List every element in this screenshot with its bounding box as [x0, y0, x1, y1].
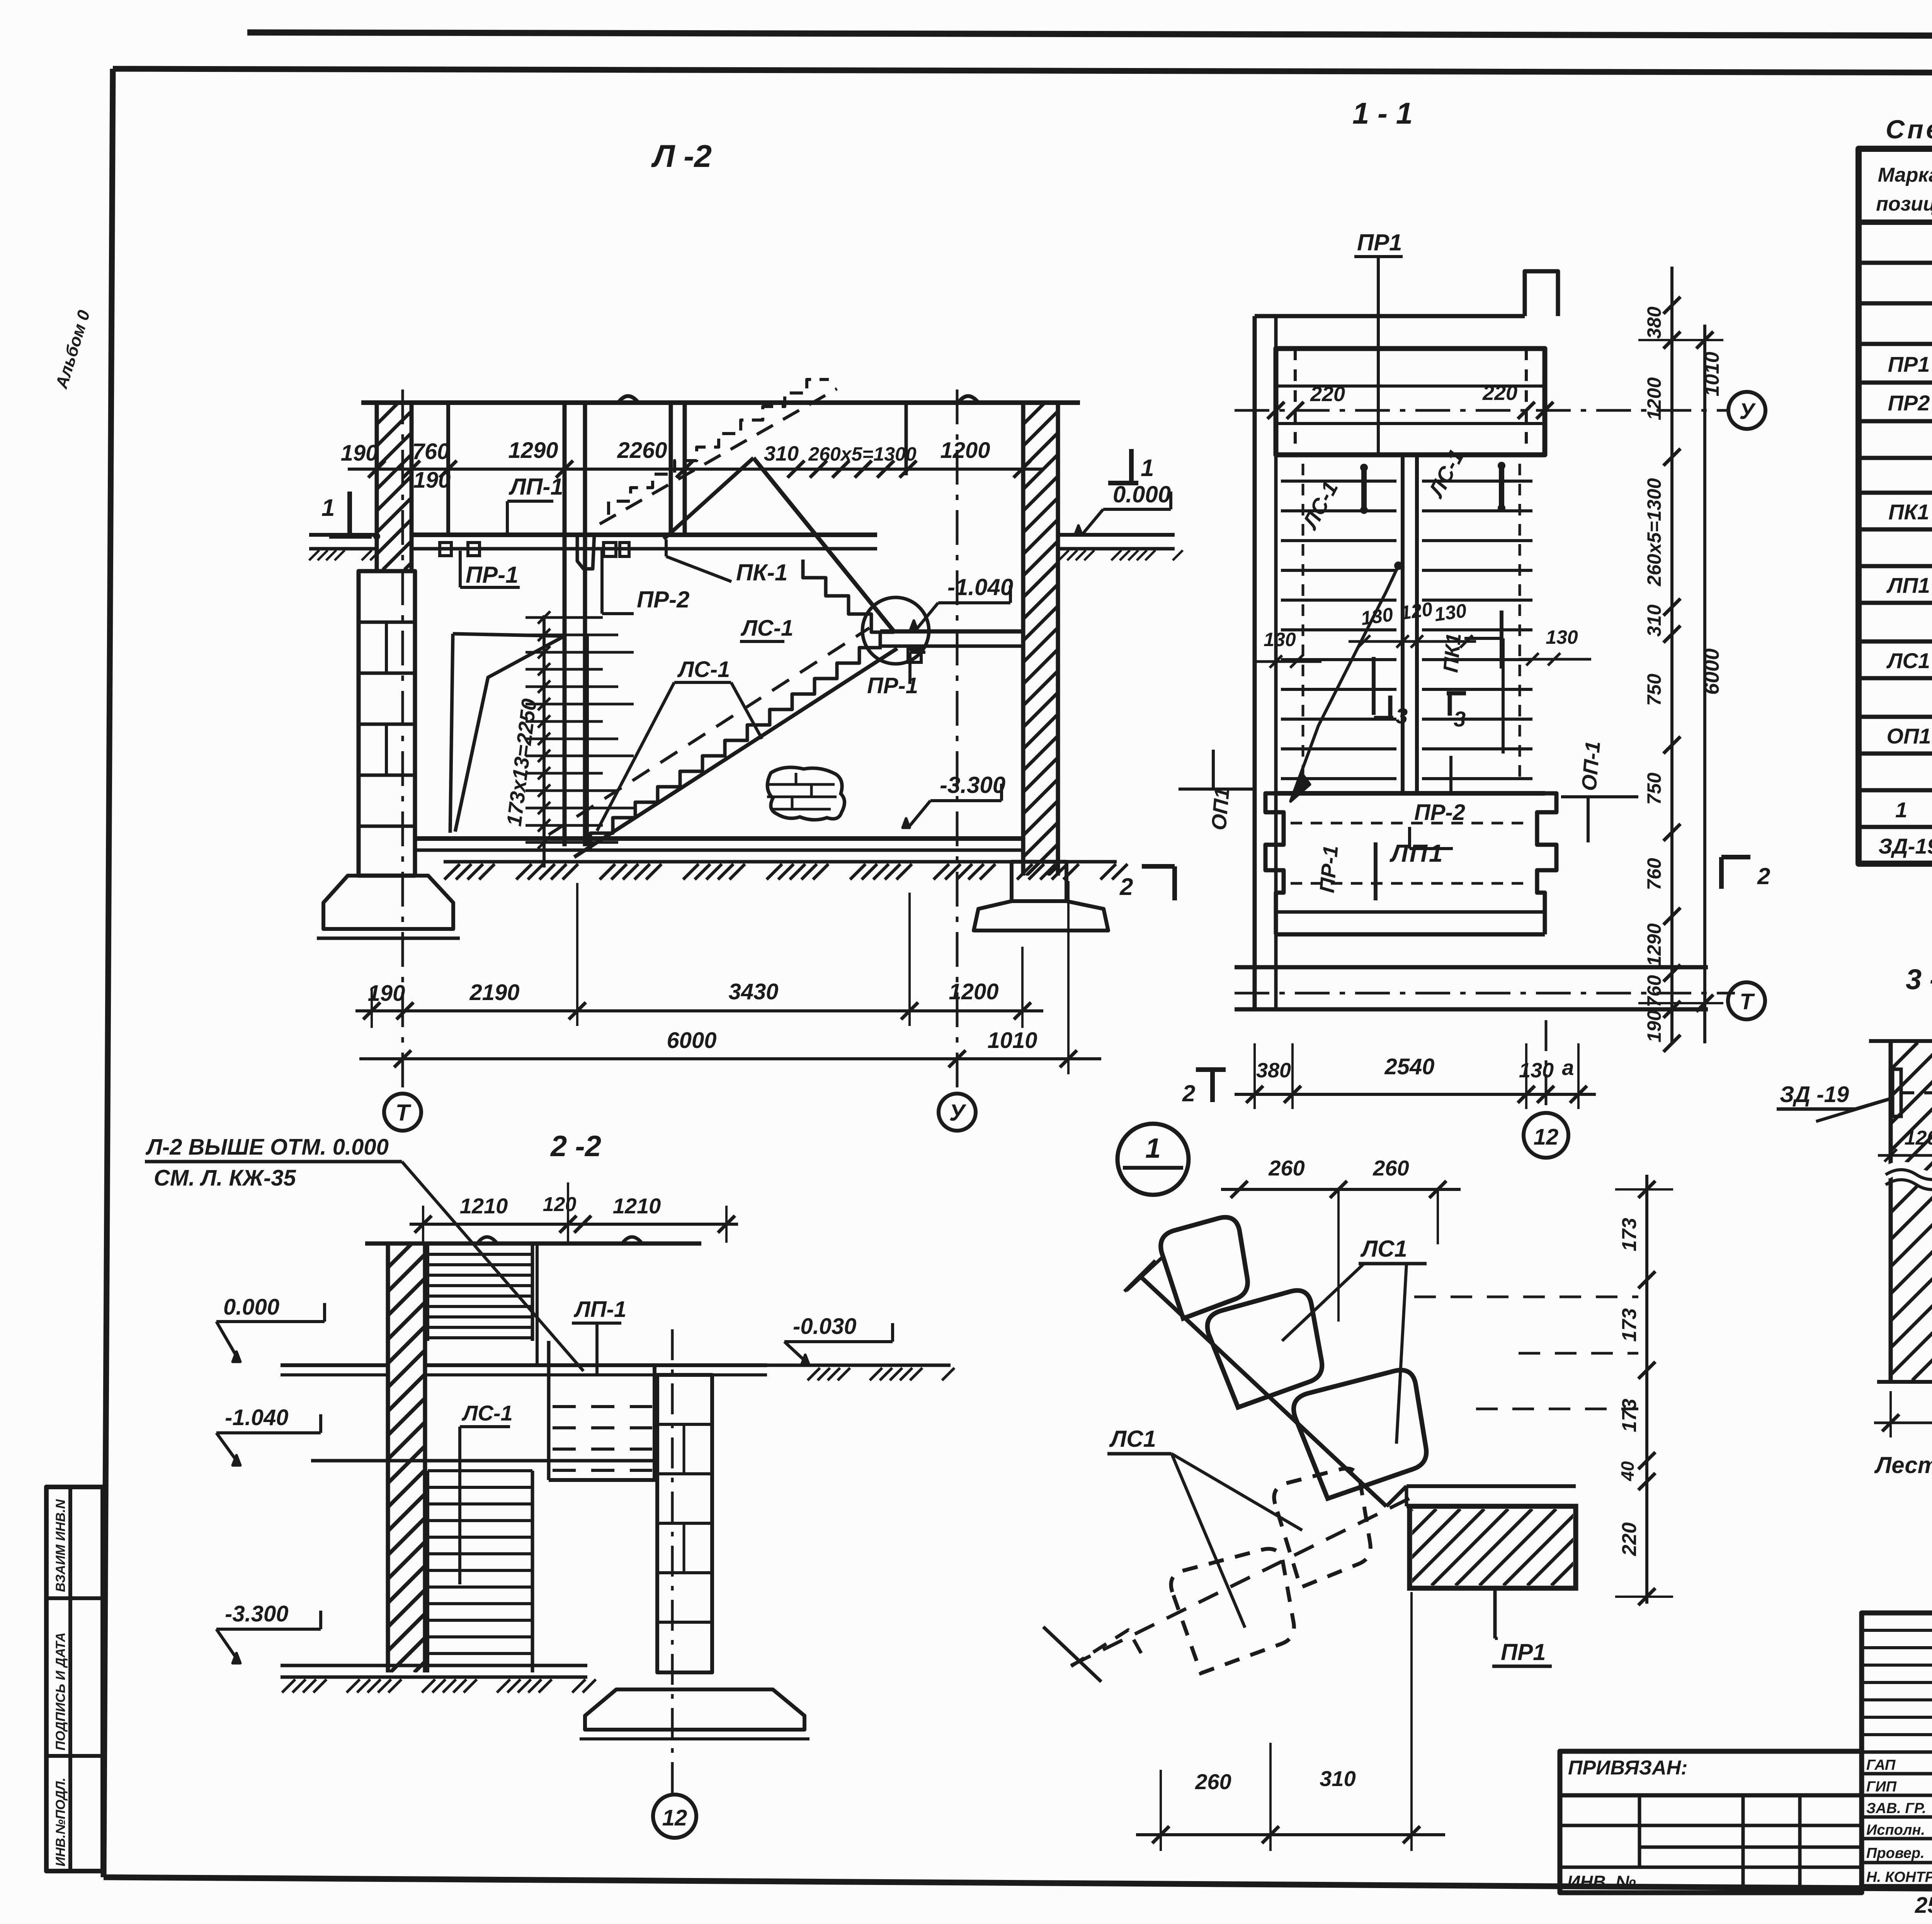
- right footing pier: [1012, 862, 1066, 901]
- svg-text:ПК-1: ПК-1: [736, 560, 787, 585]
- svg-text:ГАП: ГАП: [1866, 1757, 1896, 1773]
- spec table header bottom: [1859, 219, 1932, 225]
- lower landing dashed lines: [1291, 822, 1530, 825]
- PR1 leader vertical: [1377, 257, 1380, 455]
- ceiling break hump: [618, 396, 638, 403]
- svg-text:2190: 2190: [469, 980, 519, 1005]
- svg-text:1: 1: [321, 495, 335, 521]
- inventory strip cell line 2: [46, 1754, 103, 1758]
- svg-text:173: 173: [1618, 1399, 1641, 1432]
- svg-text:ЛС-1: ЛС-1: [740, 616, 793, 641]
- sheet frame top: [113, 69, 1932, 74]
- svg-text:Провер.: Провер.: [1866, 1845, 1925, 1861]
- svg-text:1210: 1210: [613, 1194, 661, 1218]
- 2-2 right pier: [657, 1375, 712, 1672]
- wall line 760 edge: [446, 403, 450, 535]
- axis circle T plan: [1728, 982, 1765, 1019]
- landing -1.040 slab: [880, 629, 1023, 634]
- svg-text:40: 40: [1617, 1461, 1638, 1482]
- svg-text:1: 1: [1145, 1133, 1161, 1164]
- svg-text:1290: 1290: [1643, 923, 1665, 966]
- detail step 3: [1294, 1370, 1426, 1499]
- detail step 1: [1161, 1217, 1248, 1318]
- sheet frame left: [104, 69, 113, 1877]
- svg-text:ПК1: ПК1: [1888, 500, 1929, 524]
- slab 0.000 left outside: [309, 533, 377, 537]
- svg-text:760: 760: [1643, 858, 1665, 890]
- plan left wall doubles: [1253, 316, 1257, 1009]
- detail top dims: [1221, 1188, 1461, 1191]
- right footing: [974, 901, 1108, 931]
- 3-3 top cap line: [1869, 1039, 1932, 1043]
- stairwell wall line B: [583, 403, 587, 846]
- svg-text:750: 750: [1643, 674, 1665, 706]
- svg-text:1290: 1290: [508, 438, 558, 463]
- slab 0.000 main: [412, 532, 877, 537]
- svg-text:2260: 2260: [617, 438, 667, 463]
- 2-2 top line: [365, 1242, 701, 1246]
- inventory strip cell line 1: [46, 1596, 103, 1600]
- svg-text:ЗД-19: ЗД-19: [1878, 834, 1932, 858]
- svg-text:1200: 1200: [1643, 377, 1665, 420]
- stairwell wall line A: [563, 403, 567, 846]
- detail bottom dim extensions: [1160, 1770, 1162, 1851]
- ground line: [444, 860, 1117, 864]
- svg-text:ГИП: ГИП: [1866, 1779, 1897, 1795]
- 2-2 floor slab: [281, 1363, 388, 1367]
- detail level dashed lines: [1414, 1296, 1638, 1298]
- LP-1 bracket: [506, 501, 509, 536]
- svg-text:1010: 1010: [987, 1028, 1037, 1053]
- svg-text:750: 750: [1643, 772, 1665, 805]
- svg-text:Н. КОНТР: Н. КОНТР: [1866, 1869, 1932, 1885]
- left brick pier courses: [359, 621, 415, 624]
- note leader: [402, 1162, 583, 1371]
- svg-text:1010: 1010: [1701, 352, 1723, 396]
- svg-text:760: 760: [412, 439, 450, 464]
- upper flight dashed zigzag: [609, 379, 829, 515]
- plan bottom wall: [1235, 965, 1708, 970]
- 3-3 wall break marks: [1886, 1168, 1932, 1178]
- 2-2 lower flight stack: [428, 1469, 532, 1472]
- svg-text:3 - 3: 3 - 3: [1906, 963, 1932, 995]
- svg-text:-1.040: -1.040: [225, 1405, 288, 1430]
- signature table name rows: [1862, 1750, 1932, 1754]
- svg-text:260: 260: [1268, 1156, 1304, 1180]
- detail bottom partial step: [1071, 1630, 1144, 1666]
- svg-text:ЛС1: ЛС1: [1360, 1236, 1407, 1262]
- svg-text:ОП1: ОП1: [1207, 786, 1234, 831]
- bottom slab -3.300: [415, 836, 1023, 841]
- flight solid stringer upper: [753, 458, 893, 631]
- svg-text:ПОДПИСЬ И ДАТА: ПОДПИСЬ И ДАТА: [53, 1632, 68, 1750]
- PR-2 lintel squares: [604, 543, 616, 556]
- plan bottom dim line: [1235, 1093, 1596, 1096]
- lower flight stringer: [574, 648, 897, 857]
- svg-text:ПР-1: ПР-1: [466, 562, 519, 588]
- svg-text:Исполн.: Исполн.: [1866, 1822, 1925, 1838]
- plan right flight treads: [1422, 480, 1532, 483]
- svg-text:130: 130: [1433, 600, 1468, 626]
- section mark 2 plan right: [1719, 857, 1724, 889]
- svg-text:190: 190: [1643, 1010, 1665, 1043]
- svg-text:-3.300: -3.300: [225, 1601, 288, 1626]
- svg-text:ЛС-1: ЛС-1: [677, 657, 730, 682]
- inventory strip box: [46, 1487, 103, 1871]
- svg-text:260: 260: [1372, 1156, 1409, 1180]
- section mark 2 plan left: [1196, 1067, 1226, 1072]
- svg-text:0.000: 0.000: [1113, 481, 1171, 507]
- detail hidden stringer dashed: [1071, 1497, 1412, 1665]
- grid line right: [905, 403, 908, 475]
- svg-text:1 - 1: 1 - 1: [1352, 96, 1413, 130]
- svg-text:130: 130: [1546, 626, 1578, 648]
- svg-text:260: 260: [1195, 1769, 1231, 1794]
- wall line C pair: [669, 403, 673, 535]
- svg-text:Марка: Марка: [1878, 164, 1932, 186]
- svg-text:190: 190: [413, 468, 451, 493]
- svg-text:Лестница Л-2 выше отм. 0.00: Лестница Л-2 выше отм. 0.000 дана на лис…: [1874, 1452, 1932, 1478]
- svg-text:ПР-2: ПР-2: [1414, 800, 1465, 825]
- left footing: [323, 876, 453, 929]
- svg-text:позиц.: позиц.: [1876, 193, 1932, 215]
- 3-3 label ZD-19 leader: [1816, 1098, 1893, 1121]
- svg-text:190: 190: [368, 981, 405, 1006]
- upper dim line: [348, 468, 1043, 471]
- svg-text:Спецификация элементов ле: Спецификация элементов лестницы Л-2: [1886, 115, 1932, 144]
- svg-text:260х5=1300: 260х5=1300: [808, 443, 917, 465]
- svg-text:260х5=1300: 260х5=1300: [1643, 478, 1665, 587]
- axis T horizontal plan: [1235, 992, 1735, 995]
- mid flight zigzag: [803, 560, 894, 632]
- svg-text:ПР2: ПР2: [1888, 391, 1930, 415]
- 2-2 upper flight stack: [428, 1253, 532, 1256]
- svg-text:ПК1: ПК1: [1439, 632, 1466, 674]
- -1.040 landing line: [311, 1459, 655, 1463]
- svg-text:3: 3: [1454, 707, 1466, 731]
- svg-text:1200: 1200: [940, 438, 990, 463]
- axis circle U plan: [1728, 392, 1765, 429]
- plan left flight treads: [1281, 480, 1396, 483]
- svg-text:130: 130: [1264, 629, 1296, 650]
- detail flight stringer: [1140, 1276, 1386, 1506]
- svg-text:130: 130: [1359, 604, 1395, 629]
- plan flight dashed edge left: [1302, 464, 1304, 784]
- bent bar outline: [453, 634, 563, 636]
- stair direction arrow: [1291, 566, 1398, 801]
- svg-text:-0.030: -0.030: [793, 1314, 856, 1339]
- slab 0.000 outside right wall: [1058, 533, 1175, 537]
- right wall edges: [1021, 403, 1026, 876]
- privyazan grid cols: [1638, 1795, 1641, 1867]
- 2-2 pier inner vertical: [683, 1424, 685, 1474]
- svg-text:2540: 2540: [1384, 1054, 1434, 1079]
- lower landing LP1 outline: [1276, 791, 1545, 796]
- axis circle T: [384, 1094, 421, 1131]
- dim extension lines: [576, 883, 578, 1026]
- 2-2 wall edges: [386, 1244, 390, 1672]
- svg-text:1200: 1200: [949, 979, 998, 1004]
- svg-text:ЗД -19: ЗД -19: [1780, 1082, 1849, 1107]
- 2-2 landing dashed: [553, 1405, 652, 1408]
- svg-text:ЗАВ. ГР.: ЗАВ. ГР.: [1866, 1800, 1926, 1817]
- PR-1 lintel squares: [440, 543, 451, 556]
- svg-text:ПР-1: ПР-1: [1315, 844, 1342, 894]
- svg-text:Т: Т: [396, 1100, 412, 1126]
- svg-text:12: 12: [662, 1805, 687, 1830]
- axis T line: [401, 390, 404, 1094]
- flight triangle left edge: [664, 458, 753, 539]
- axis circle U: [939, 1094, 976, 1131]
- svg-text:ЛС-1: ЛС-1: [461, 1401, 513, 1425]
- svg-text:ПР1: ПР1: [1501, 1639, 1546, 1665]
- lower flight zigzag: [590, 648, 882, 849]
- svg-text:ЛС1: ЛС1: [1886, 648, 1930, 673]
- sheet frame bottom: [104, 1877, 1932, 1893]
- upper flight dashed stringer: [600, 389, 837, 524]
- detail bottom dim line: [1136, 1833, 1445, 1836]
- svg-text:1: 1: [1895, 798, 1907, 822]
- detail callout circle: [862, 597, 929, 664]
- svg-text:2: 2: [1119, 874, 1133, 900]
- svg-text:У: У: [949, 1100, 967, 1126]
- plan top wall line: [1255, 314, 1525, 318]
- bottom dim line 1: [355, 1009, 1043, 1012]
- svg-text:ЛП-1: ЛП-1: [509, 474, 563, 500]
- svg-text:2: 2: [1757, 863, 1770, 889]
- spec table outer border: [1859, 149, 1932, 864]
- svg-text:ЛП1: ЛП1: [1886, 573, 1930, 597]
- section mark 2 bottom: [1142, 864, 1175, 869]
- svg-text:Л -2: Л -2: [651, 139, 712, 174]
- circle 12 plan: [1545, 1020, 1548, 1107]
- 3-3 embedded plate: [1893, 1069, 1901, 1116]
- svg-text:2 -2: 2 -2: [550, 1130, 601, 1163]
- 2-2 top dims: [410, 1223, 738, 1226]
- plan dim horizontal connectors: [1638, 339, 1723, 341]
- signature table thin rows: [1862, 1629, 1932, 1632]
- svg-text:310: 310: [764, 442, 799, 465]
- upper landing inner lines: [1276, 384, 1545, 388]
- svg-text:190: 190: [341, 441, 378, 466]
- lower landing bottom lines: [1276, 910, 1545, 914]
- svg-text:120: 120: [543, 1193, 577, 1216]
- detail callout 1: [1117, 1124, 1189, 1195]
- svg-text:173: 173: [1618, 1308, 1641, 1342]
- svg-text:380: 380: [1643, 306, 1665, 339]
- bottom dim line 2: [359, 1057, 1101, 1060]
- svg-text:173: 173: [1618, 1218, 1641, 1252]
- svg-text:310: 310: [1643, 604, 1665, 637]
- ceiling line: [361, 400, 1080, 405]
- section mark 3 left: [1374, 716, 1393, 720]
- svg-text:-3.300: -3.300: [940, 772, 1005, 798]
- svg-text:ПРИВЯЗАН:: ПРИВЯЗАН:: [1568, 1757, 1688, 1779]
- 2-2 bottom floor: [281, 1664, 587, 1667]
- 2-2 circle 12: [653, 1795, 696, 1838]
- 3-3 anchor dashed line: [1900, 1091, 1932, 1094]
- svg-text:2: 2: [1182, 1080, 1195, 1106]
- privyazan grid rows: [1560, 1793, 1862, 1798]
- plan right dim line inner: [1670, 267, 1673, 1043]
- signature table outer: [1862, 1613, 1932, 1887]
- svg-text:6000: 6000: [1700, 648, 1723, 695]
- svg-text:220: 220: [1310, 383, 1345, 406]
- slab beam drop: [577, 535, 594, 569]
- note underline: [145, 1160, 402, 1164]
- svg-text:3430: 3430: [728, 979, 778, 1004]
- 2-2 foundation: [585, 1689, 804, 1730]
- 2-2 mid verticals: [536, 1244, 539, 1364]
- left wall edges: [375, 403, 379, 571]
- brick patch: [767, 767, 844, 820]
- svg-text:ПР1: ПР1: [1888, 352, 1930, 376]
- ladder verticals: [586, 634, 589, 846]
- svg-text:ПР1: ПР1: [1357, 230, 1402, 255]
- section mark 1 right: [1129, 449, 1134, 482]
- spec table row lines: [1859, 261, 1932, 265]
- 3-3 ground line: [1877, 1380, 1932, 1384]
- plan right dim line outer: [1703, 325, 1706, 1043]
- svg-text:1210: 1210: [460, 1194, 508, 1218]
- svg-text:ПР-2: ПР-2: [637, 587, 690, 612]
- title block privyazan box: [1560, 1751, 1862, 1893]
- detail step 4 dashed: [1274, 1468, 1370, 1587]
- svg-text:ОП1: ОП1: [1887, 724, 1931, 748]
- svg-text:12: 12: [1534, 1124, 1559, 1150]
- svg-text:ОП-1: ОП-1: [1577, 740, 1605, 792]
- svg-text:а: а: [1562, 1055, 1574, 1080]
- upper landing dashed edges: [1294, 349, 1297, 455]
- upper landing slab outer: [1276, 349, 1545, 455]
- riser ladder dim line: [543, 615, 546, 868]
- svg-text:120: 120: [1399, 598, 1434, 624]
- detail right dim line: [1645, 1175, 1648, 1604]
- svg-text:130: 130: [1519, 1059, 1554, 1082]
- svg-text:Л-2 ВЫШЕ ОТМ. 0.000: Л-2 ВЫШЕ ОТМ. 0.000: [145, 1135, 389, 1160]
- detail step nose tick: [1386, 1486, 1406, 1506]
- left brick pier outline: [359, 571, 415, 876]
- svg-text:310: 310: [1320, 1766, 1355, 1791]
- 2-2 axis line: [671, 1329, 674, 1793]
- svg-text:ИНВ. №: ИНВ. №: [1567, 1872, 1636, 1892]
- lower flight dashed line: [549, 628, 869, 835]
- svg-text:220: 220: [1482, 381, 1517, 405]
- detail step 2: [1207, 1291, 1322, 1407]
- svg-text:ЛП-1: ЛП-1: [573, 1297, 626, 1322]
- 3-3 wall edges: [1889, 1041, 1893, 1380]
- scan top edge line: [247, 32, 1932, 37]
- svg-text:Т: Т: [1740, 989, 1755, 1014]
- plan dim extensions: [1253, 1043, 1256, 1109]
- plan rebar marks: [1361, 468, 1367, 510]
- svg-text:ЛП1: ЛП1: [1389, 839, 1444, 867]
- svg-text:3: 3: [1396, 704, 1408, 728]
- axis U line: [956, 390, 959, 1094]
- svg-text:СМ. Л. КЖ-35: СМ. Л. КЖ-35: [154, 1165, 296, 1191]
- svg-text:0.000: 0.000: [223, 1295, 279, 1320]
- svg-text:ВЗАИМ ИНВ.N: ВЗАИМ ИНВ.N: [53, 1499, 68, 1592]
- svg-text:У: У: [1739, 399, 1756, 424]
- svg-text:ЛС1: ЛС1: [1109, 1426, 1156, 1452]
- svg-text:ИНВ.№ПОДЛ.: ИНВ.№ПОДЛ.: [53, 1778, 68, 1866]
- detail step 5 dashed: [1171, 1549, 1294, 1673]
- svg-text:380: 380: [1256, 1059, 1291, 1082]
- plan flight dashed edge right: [1519, 464, 1521, 784]
- detail PR1 block: [1410, 1506, 1576, 1588]
- axis U horizontal: [1235, 409, 1730, 412]
- svg-text:120: 120: [1905, 1127, 1932, 1149]
- svg-text:6000: 6000: [667, 1028, 716, 1053]
- inventory strip divider: [68, 1487, 72, 1871]
- plan top protrusion: [1525, 271, 1558, 316]
- section mark 3 right: [1447, 691, 1466, 696]
- svg-text:253Н3 -04: 253Н3 -04: [1915, 1893, 1932, 1918]
- svg-text:220: 220: [1618, 1523, 1641, 1557]
- svg-text:1: 1: [1141, 455, 1154, 481]
- plan stair center stringers: [1401, 455, 1405, 793]
- detail PR1 slab band: [1406, 1484, 1576, 1488]
